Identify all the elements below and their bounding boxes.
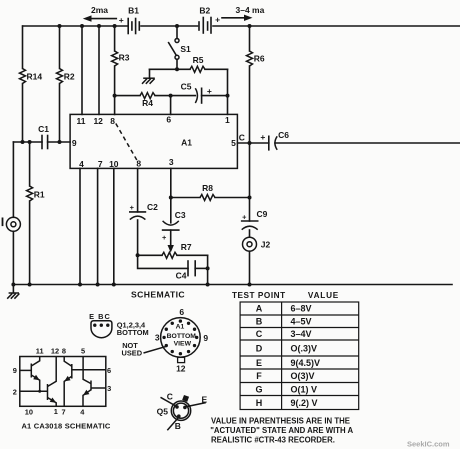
svg-text:REALISTIC #CTR-43 RECORDER.: REALISTIC #CTR-43 RECORDER. bbox=[211, 435, 335, 444]
3-4 ma current arrow bbox=[222, 5, 265, 21]
svg-text:10: 10 bbox=[109, 159, 119, 169]
svg-text:S1: S1 bbox=[180, 44, 191, 54]
svg-text:O(1) V: O(1) V bbox=[291, 384, 318, 394]
wire pin 5 to C6 bbox=[237, 142, 268, 144]
svg-text:C2: C2 bbox=[147, 202, 158, 212]
wire pin 9 line bbox=[13, 141, 70, 143]
wire pin 2 bbox=[20, 390, 48, 392]
junction pin5 R6 bbox=[248, 141, 252, 145]
resistor R6 bbox=[247, 26, 265, 143]
svg-text:8: 8 bbox=[62, 346, 66, 355]
wire pin 11 to top rail bbox=[81, 26, 83, 114]
capacitor C3 bbox=[162, 198, 186, 243]
svg-text:H: H bbox=[256, 398, 263, 408]
svg-text:TEST POINT: TEST POINT bbox=[232, 291, 286, 300]
svg-text:+: + bbox=[162, 233, 167, 242]
svg-text:E: E bbox=[256, 358, 262, 368]
dashed internal link pin8 bbox=[116, 124, 137, 161]
resistor R3 bbox=[112, 26, 130, 114]
svg-text:2: 2 bbox=[13, 387, 17, 396]
wiper arrow C3 to R7 bbox=[168, 230, 174, 253]
transistor Q4 bbox=[83, 381, 106, 407]
resistor R14 bbox=[20, 26, 43, 142]
svg-text:C3: C3 bbox=[175, 210, 186, 220]
input jack J1 bbox=[2, 142, 21, 285]
junction R2 bottom bbox=[58, 140, 62, 144]
svg-text:VALUE IN PARENTHESIS ARE IN TH: VALUE IN PARENTHESIS ARE IN THE bbox=[211, 416, 350, 425]
battery B1 bbox=[119, 6, 140, 34]
resistor R4 bbox=[140, 93, 155, 108]
svg-text:A: A bbox=[256, 304, 263, 314]
wire ca3018 pin 5 to Q4 bbox=[83, 357, 91, 384]
svg-text:BOTTOM: BOTTOM bbox=[117, 328, 149, 337]
wire top rail left segment bbox=[23, 25, 127, 27]
svg-text:9: 9 bbox=[72, 138, 77, 148]
svg-text:"ACTUATED" STATE AND ARE WITH: "ACTUATED" STATE AND ARE WITH A bbox=[210, 426, 353, 435]
junction pin3 R8 bbox=[169, 196, 173, 200]
ground at S1 bbox=[142, 69, 155, 84]
svg-text:BOTTOM: BOTTOM bbox=[167, 333, 197, 340]
svg-text:7: 7 bbox=[62, 407, 66, 416]
svg-text:+: + bbox=[119, 15, 124, 25]
svg-text:C1: C1 bbox=[38, 124, 49, 134]
junction Q1 emitter pin2 bbox=[38, 390, 41, 393]
svg-text:R6: R6 bbox=[254, 53, 265, 63]
capacitor C5 bbox=[181, 81, 212, 103]
svg-text:E: E bbox=[201, 395, 207, 405]
switch S1 bbox=[169, 26, 191, 69]
capacitor C2 bbox=[130, 168, 159, 255]
resistor R5 bbox=[190, 55, 205, 72]
svg-text:1: 1 bbox=[225, 115, 230, 125]
junction C2 R7 bbox=[136, 253, 140, 257]
svg-text:1: 1 bbox=[54, 407, 58, 416]
svg-text:R14: R14 bbox=[27, 72, 43, 82]
junction top rail R3 bbox=[113, 24, 117, 28]
A1 CA3018 schematic box bbox=[13, 346, 112, 416]
wire pin 12 to top rail bbox=[98, 26, 100, 114]
svg-text:3: 3 bbox=[155, 333, 160, 343]
junction top rail R6 bbox=[248, 24, 252, 28]
op-amp module A1 box bbox=[70, 114, 237, 168]
svg-text:C6: C6 bbox=[278, 130, 289, 140]
svg-text:8: 8 bbox=[136, 159, 141, 169]
junction pin6 riser bbox=[169, 94, 173, 98]
potentiometer R7 bbox=[138, 242, 208, 258]
junction R3-R4 bbox=[113, 94, 117, 98]
svg-text:9(.2) V: 9(.2) V bbox=[291, 398, 318, 408]
svg-text:F: F bbox=[256, 371, 262, 381]
svg-text:+: + bbox=[207, 86, 212, 96]
svg-text:+: + bbox=[260, 132, 265, 142]
wire R5 right to C5 line bbox=[227, 69, 229, 95]
transistor Q3 bbox=[64, 357, 106, 407]
junction rail J2 bbox=[248, 283, 252, 287]
wire bottom ground rail bbox=[13, 284, 452, 286]
svg-text:3–4V: 3–4V bbox=[291, 329, 312, 339]
svg-text:5: 5 bbox=[81, 347, 85, 356]
ground at rail left end bbox=[7, 285, 19, 299]
svg-text:C9: C9 bbox=[257, 209, 268, 219]
svg-text:O(3)V: O(3)V bbox=[291, 371, 315, 381]
wire pin 1 riser bbox=[227, 96, 229, 115]
svg-text:A1 CA3018 SCHEMATIC: A1 CA3018 SCHEMATIC bbox=[21, 421, 110, 430]
test point table bbox=[240, 302, 359, 410]
svg-text:E BC: E BC bbox=[89, 312, 111, 321]
wire R7 right to rail bbox=[207, 255, 209, 284]
svg-text:R2: R2 bbox=[64, 72, 75, 82]
svg-text:C: C bbox=[167, 391, 173, 401]
svg-text:SeekIC.com: SeekIC.com bbox=[407, 439, 450, 448]
2ma current arrow bbox=[83, 5, 117, 22]
wire R6 to R8 junction bbox=[249, 143, 251, 198]
svg-text:C4: C4 bbox=[176, 271, 187, 281]
transistor socket Q1-4 bottom view bbox=[89, 312, 149, 338]
wire pin 3 down bbox=[170, 168, 172, 197]
svg-text:3: 3 bbox=[169, 157, 174, 167]
svg-text:6–8V: 6–8V bbox=[291, 304, 312, 314]
junction R14 bottom bbox=[21, 140, 25, 144]
svg-text:4–5V: 4–5V bbox=[291, 317, 312, 327]
wire top rail mid segment bbox=[141, 25, 198, 27]
svg-text:C: C bbox=[256, 329, 263, 339]
svg-text:R5: R5 bbox=[193, 55, 204, 65]
svg-text:4: 4 bbox=[79, 159, 84, 169]
junction R1 top bbox=[28, 140, 32, 144]
wire R3 junction to R4 to C5 bbox=[115, 95, 228, 97]
svg-text:B2: B2 bbox=[199, 6, 210, 16]
junction top rail R2 bbox=[58, 24, 62, 28]
svg-text:O(.3)V: O(.3)V bbox=[291, 343, 318, 353]
svg-text:9: 9 bbox=[13, 366, 17, 375]
wire pin 4 to rail bbox=[79, 168, 81, 284]
svg-text:C5: C5 bbox=[181, 81, 192, 91]
svg-text:SCHEMATIC: SCHEMATIC bbox=[131, 289, 185, 299]
wire pin 6 riser bbox=[170, 96, 172, 115]
svg-text:8: 8 bbox=[110, 116, 115, 126]
transistor Q2 bbox=[48, 357, 57, 407]
svg-text:11: 11 bbox=[36, 347, 44, 356]
svg-text:R7: R7 bbox=[181, 242, 192, 252]
svg-text:9(4.5)V: 9(4.5)V bbox=[291, 358, 321, 368]
svg-text:Q5: Q5 bbox=[157, 407, 169, 417]
svg-text:+: + bbox=[215, 15, 220, 25]
junction top rail S1 bbox=[175, 24, 179, 28]
capacitor C9 bbox=[242, 198, 268, 238]
svg-text:12: 12 bbox=[176, 364, 186, 374]
svg-text:12: 12 bbox=[93, 116, 103, 126]
svg-text:12: 12 bbox=[51, 346, 59, 355]
junction top rail pin12 bbox=[97, 24, 101, 28]
svg-text:10: 10 bbox=[25, 407, 33, 416]
svg-text:9: 9 bbox=[203, 333, 208, 343]
wire top rail right segment bbox=[213, 25, 460, 27]
wire pin 7 to rail bbox=[97, 168, 99, 284]
wire S1 to ground and R5 bbox=[150, 68, 228, 70]
not used pointer bbox=[122, 341, 167, 358]
svg-text:B1: B1 bbox=[128, 6, 139, 16]
capacitor C1 bbox=[38, 124, 49, 148]
IC socket A1 bottom view bbox=[155, 307, 209, 374]
capacitor C4 bbox=[138, 255, 208, 280]
svg-text:R8: R8 bbox=[202, 183, 213, 193]
svg-text:6: 6 bbox=[107, 366, 111, 375]
output jack J2 bbox=[243, 237, 271, 284]
transistor Q1 bbox=[20, 357, 40, 392]
svg-text:VALUE: VALUE bbox=[308, 291, 339, 300]
transistor Q5 bottom view bbox=[157, 391, 208, 431]
svg-text:+: + bbox=[130, 203, 135, 212]
junction C5 right / pin1 riser bbox=[226, 94, 230, 98]
svg-text:USED: USED bbox=[122, 349, 143, 358]
svg-text:2ma: 2ma bbox=[91, 5, 108, 15]
svg-text:5: 5 bbox=[231, 138, 236, 148]
svg-text:A1: A1 bbox=[176, 324, 185, 331]
wire C6 to right edge bbox=[275, 142, 460, 144]
junction top rail pin11 bbox=[80, 24, 84, 28]
svg-text:R4: R4 bbox=[142, 98, 153, 108]
svg-text:6: 6 bbox=[166, 115, 171, 125]
junction R8 right bbox=[248, 196, 252, 200]
svg-text:3–4 ma: 3–4 ma bbox=[236, 5, 265, 15]
svg-text:3: 3 bbox=[107, 384, 111, 393]
svg-text:G: G bbox=[255, 384, 262, 394]
junction S1 bottom bbox=[175, 67, 179, 71]
svg-text:VIEW: VIEW bbox=[174, 341, 192, 348]
resistor R2 bbox=[57, 26, 75, 142]
svg-text:7: 7 bbox=[98, 159, 103, 169]
svg-text:R3: R3 bbox=[119, 53, 130, 63]
svg-text:C: C bbox=[239, 133, 245, 143]
resistor R1 bbox=[27, 142, 45, 285]
junction rail J1 bbox=[11, 283, 15, 287]
junction C4 right bbox=[206, 266, 210, 270]
junction rail R1 bbox=[28, 283, 32, 287]
svg-text:11: 11 bbox=[77, 116, 86, 126]
battery B2 bbox=[199, 6, 220, 34]
capacitor C6 bbox=[260, 130, 289, 150]
svg-text:R1: R1 bbox=[34, 190, 45, 200]
svg-text:J2: J2 bbox=[261, 239, 271, 249]
caption note bbox=[210, 416, 353, 444]
svg-text:6: 6 bbox=[179, 307, 184, 317]
wire pin 10 to rail bbox=[113, 168, 115, 284]
svg-text:B: B bbox=[256, 317, 263, 327]
resistor R8 bbox=[171, 183, 250, 201]
svg-text:B: B bbox=[175, 421, 181, 431]
svg-text:A1: A1 bbox=[181, 137, 192, 147]
svg-text:D: D bbox=[256, 343, 263, 353]
svg-text:+: + bbox=[242, 212, 247, 221]
